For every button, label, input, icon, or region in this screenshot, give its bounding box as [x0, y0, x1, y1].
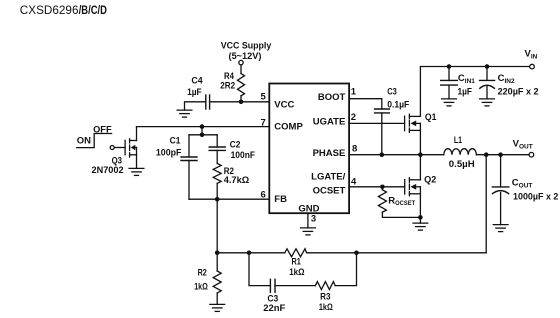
capacitor CIN2 polarized	[480, 67, 539, 99]
svg-text:8: 8	[352, 144, 357, 155]
svg-text:2: 2	[351, 112, 356, 123]
wire FB line	[189, 198, 269, 200]
node C3 branch	[247, 251, 252, 256]
wire LGATE/OCSET	[349, 186, 405, 188]
node T-bar junction	[200, 133, 205, 138]
svg-text:C3: C3	[387, 87, 397, 98]
node ROCSET top	[380, 185, 385, 190]
wire L1 to VOUT	[476, 154, 528, 156]
wire C4 to ground	[185, 102, 206, 110]
node COUT junction	[498, 152, 503, 157]
wire R4 to VCC node	[240, 96, 242, 102]
svg-text:1kΩ: 1kΩ	[194, 281, 208, 292]
wire Q2 source to ground	[419, 217, 421, 223]
wire bottom rail right	[307, 252, 487, 254]
capacitor C3 22nF	[263, 279, 315, 314]
svg-text:LGATE/: LGATE/	[311, 172, 345, 183]
svg-text:0.5µH: 0.5µH	[449, 159, 475, 170]
svg-text:220µF x 2: 220µF x 2	[498, 87, 539, 98]
node feedback junction	[484, 152, 489, 157]
svg-text:5: 5	[261, 92, 267, 103]
ground IC	[301, 228, 316, 235]
svg-text:FB: FB	[274, 194, 287, 205]
node FB junction	[215, 197, 220, 202]
svg-text:1µF: 1µF	[187, 87, 202, 98]
wire supply to R4	[240, 65, 242, 74]
node COMP junction	[200, 124, 205, 129]
label VOUT	[513, 138, 533, 150]
svg-text:GND: GND	[298, 204, 319, 215]
wire IC GND stub	[307, 213, 309, 228]
svg-text:1000µF x 2: 1000µF x 2	[513, 191, 558, 202]
capacitor C3 bootstrap	[375, 87, 410, 155]
node rail left	[215, 251, 220, 256]
wire UGATE	[349, 122, 405, 124]
svg-text:L1: L1	[454, 135, 463, 146]
capacitor CIN1	[441, 67, 476, 99]
svg-text:2N7002: 2N7002	[92, 165, 124, 176]
transistor Q3 2N7002	[92, 127, 137, 176]
svg-text:C1: C1	[170, 135, 181, 146]
svg-text:OCSET: OCSET	[313, 186, 346, 197]
svg-text:C4: C4	[191, 76, 203, 87]
svg-text:PHASE: PHASE	[313, 148, 346, 159]
resistor R2 4.7k	[213, 163, 249, 199]
wire T-bar	[189, 134, 217, 136]
svg-text:4: 4	[351, 176, 357, 187]
ground CIN2	[480, 99, 495, 106]
label VIN	[525, 49, 538, 61]
node Q2 source ground junction	[418, 215, 423, 220]
transistor Q2	[405, 155, 437, 218]
svg-text:100pF: 100pF	[156, 148, 182, 159]
inductor L1	[444, 135, 477, 170]
svg-text:ON: ON	[77, 136, 91, 147]
resistor R1	[285, 249, 307, 278]
svg-text:1kΩ: 1kΩ	[319, 302, 333, 313]
capacitor C4	[187, 76, 210, 110]
wire PHASE line	[349, 154, 444, 156]
node Q1 source junction	[418, 152, 423, 157]
node R3 branch	[354, 251, 359, 256]
ground Q3	[129, 168, 144, 175]
svg-text:COMP: COMP	[274, 121, 303, 132]
resistor R4	[220, 71, 244, 96]
svg-text:1µF: 1µF	[458, 87, 473, 98]
terminal VCC supply	[239, 60, 243, 64]
svg-text:/B/C/D: /B/C/D	[79, 4, 107, 17]
wire VCC line to IC pin5	[210, 101, 270, 103]
IC U1 box	[269, 84, 349, 214]
svg-text:CXSD6296: CXSD6296	[20, 4, 79, 17]
svg-text:1: 1	[351, 87, 357, 98]
wire C3 branch down	[249, 253, 270, 286]
svg-text:VCC: VCC	[274, 99, 294, 110]
wire feedback vertical	[485, 155, 487, 253]
svg-text:Q2: Q2	[424, 174, 436, 185]
ground COUT	[493, 225, 508, 232]
wire COMP stub	[201, 127, 203, 135]
wire COMP line	[137, 126, 270, 128]
resistor R2 1k	[194, 253, 221, 305]
wire bottom rail left	[217, 252, 285, 254]
terminal VOUT	[529, 152, 534, 157]
ground Q2	[413, 223, 428, 230]
terminal VIN	[530, 64, 535, 69]
svg-text:(5~12V): (5~12V)	[229, 51, 262, 62]
wire FB down to rail	[216, 199, 218, 253]
svg-text:R2: R2	[198, 268, 207, 279]
svg-text:3: 3	[311, 213, 316, 224]
capacitor COUT polarized	[492, 155, 558, 225]
resistor R3	[315, 253, 356, 313]
svg-text:Q1: Q1	[425, 112, 437, 123]
wire Q1 drain to VIN rail	[420, 67, 528, 117]
wire input to Q3 gate	[114, 147, 125, 149]
svg-text:1kΩ: 1kΩ	[289, 267, 305, 278]
IC pin names	[274, 92, 345, 214]
node VCC pin5	[239, 100, 244, 105]
ground CIN1	[442, 99, 457, 106]
node bootstrap junction	[380, 152, 385, 157]
node CIN2	[485, 64, 490, 69]
svg-text:R3: R3	[320, 291, 330, 302]
ground R2	[210, 304, 225, 311]
ground C4	[177, 110, 192, 117]
node CIN1	[447, 64, 452, 69]
capacitor C1	[156, 135, 197, 199]
label VCC Supply	[221, 40, 272, 61]
svg-text:100nF: 100nF	[231, 150, 256, 161]
svg-text:R1: R1	[292, 256, 302, 267]
svg-text:4.7kΩ: 4.7kΩ	[224, 175, 250, 186]
terminal Q3 gate input	[110, 146, 114, 150]
svg-text:VCC Supply: VCC Supply	[221, 40, 272, 51]
wire BOOT	[349, 99, 382, 109]
transistor Q1	[405, 112, 438, 155]
svg-text:UGATE: UGATE	[313, 116, 346, 127]
capacitor C2	[209, 135, 255, 164]
svg-text:BOOT: BOOT	[318, 92, 346, 103]
svg-text:0.1µF: 0.1µF	[387, 99, 409, 110]
step waveform symbol	[77, 134, 112, 148]
title CXSD6296/B/C/D	[20, 4, 107, 17]
svg-text:22nF: 22nF	[263, 303, 285, 314]
svg-text:2R2: 2R2	[220, 80, 235, 91]
resistor ROCSET	[378, 187, 420, 218]
